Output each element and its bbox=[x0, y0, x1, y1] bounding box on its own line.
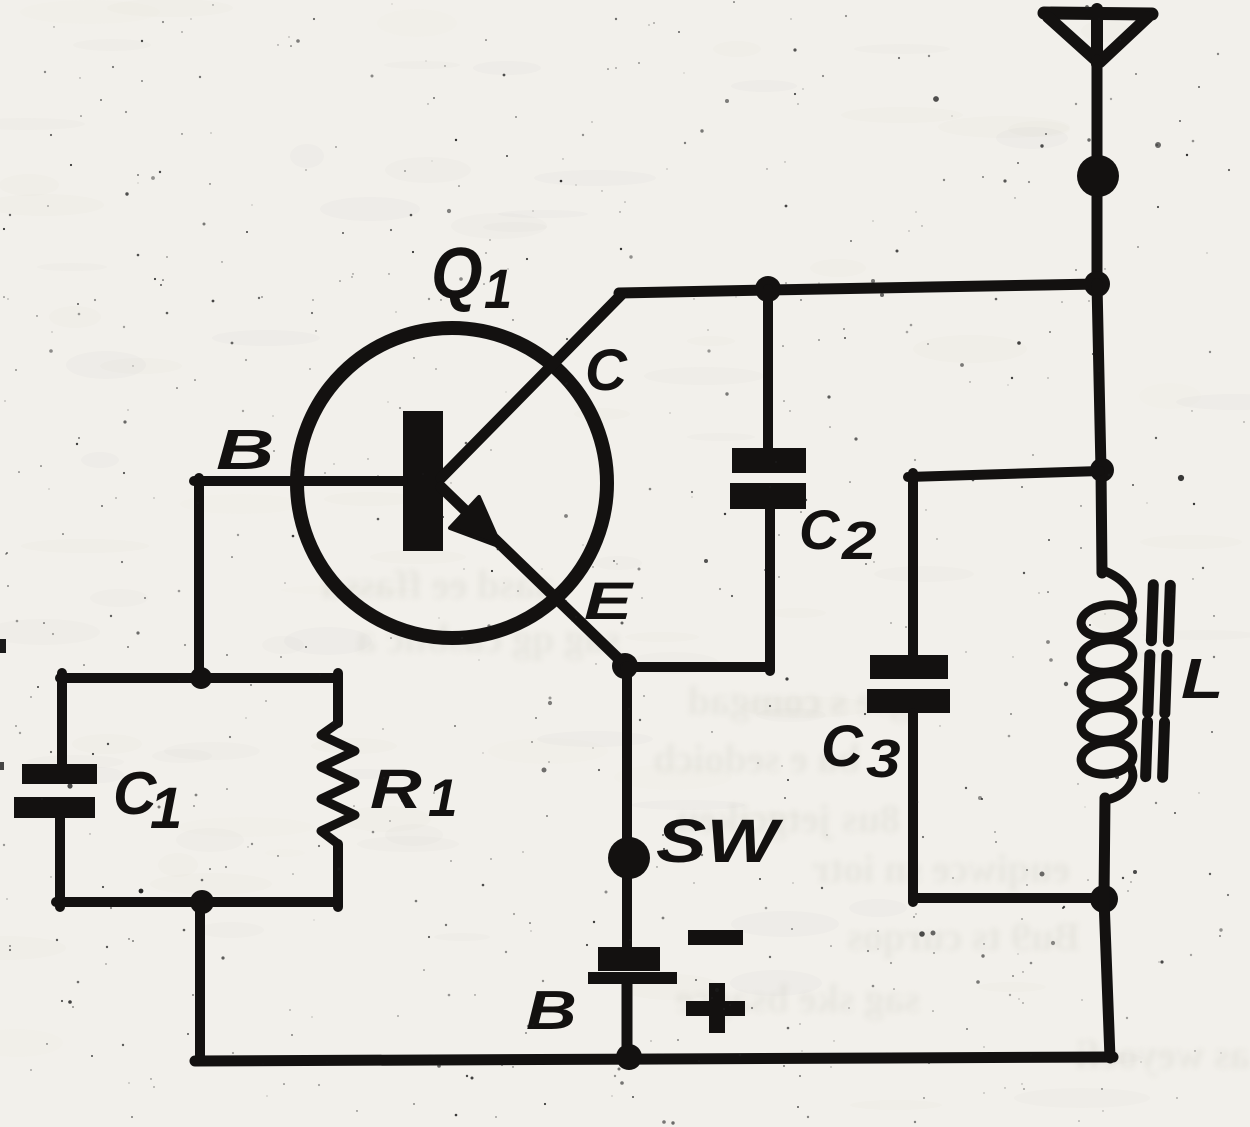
inductor L bbox=[1079, 570, 1135, 800]
node emitter junction bbox=[612, 653, 638, 679]
capacitor C3 bbox=[867, 473, 950, 902]
svg-text:1: 1 bbox=[484, 259, 512, 321]
resistor R1 bbox=[321, 673, 355, 907]
svg-text:L: L bbox=[1181, 647, 1223, 711]
wire right main vertical (lower) bbox=[1104, 798, 1110, 1058]
svg-text:Q: Q bbox=[431, 232, 483, 313]
wire C3 top bbox=[908, 471, 1100, 477]
label R1 bbox=[370, 758, 457, 828]
node L bottom junction bbox=[1090, 885, 1118, 913]
svg-text:B: B bbox=[526, 980, 577, 1041]
svg-text:C: C bbox=[821, 714, 864, 779]
node C3 top junction bbox=[1090, 458, 1114, 482]
inductor core bars bbox=[1146, 585, 1171, 778]
svg-text:3: 3 bbox=[866, 729, 901, 789]
label Q1 bbox=[431, 232, 512, 320]
label C2 bbox=[799, 498, 877, 571]
wire emitter to C2 bbox=[625, 662, 770, 672]
node C2 top junction bbox=[755, 276, 781, 302]
switch SW bbox=[608, 837, 650, 879]
svg-text:Bu9 ts curqos: Bu9 ts curqos bbox=[847, 914, 1080, 959]
wire antenna lead bbox=[1092, 60, 1103, 284]
wire emitter down to battery bbox=[622, 666, 632, 948]
wire base lead bbox=[194, 476, 403, 486]
label C1 bbox=[113, 760, 182, 841]
wire C1/R1 top rail bbox=[60, 673, 338, 683]
wire left drop to ground rail bbox=[195, 902, 205, 1061]
svg-text:E: E bbox=[584, 572, 634, 631]
wire left drop from base bbox=[194, 478, 204, 677]
transistor Q1 bbox=[297, 294, 625, 665]
antenna bbox=[1044, 9, 1152, 64]
wire bottom rail bbox=[195, 1057, 1113, 1061]
svg-text:C: C bbox=[585, 338, 628, 403]
svg-text:euqiwce sn iotr: euqiwce sn iotr bbox=[812, 846, 1070, 891]
svg-text:1: 1 bbox=[150, 776, 182, 841]
wire collector top rail bbox=[619, 284, 1097, 293]
label C3 bbox=[821, 714, 901, 789]
node top-right junction bbox=[1084, 271, 1110, 297]
node battery bottom junction bbox=[616, 1044, 642, 1070]
battery B bbox=[588, 930, 745, 1058]
capacitor C1 bbox=[14, 673, 97, 907]
node top-rail junction bbox=[190, 667, 212, 689]
wire C1/R1 bottom rail bbox=[56, 897, 338, 907]
wire C3 bottom bbox=[913, 893, 1104, 903]
svg-text:SW: SW bbox=[656, 807, 784, 875]
node bottom-rail junction bbox=[190, 890, 214, 914]
svg-text:B: B bbox=[216, 418, 274, 482]
svg-text:R: R bbox=[370, 758, 422, 821]
svg-text:C: C bbox=[799, 498, 841, 561]
node antenna tap dot bbox=[1077, 155, 1119, 197]
edge ink mark (decorative) bbox=[0, 639, 6, 653]
svg-text:1: 1 bbox=[428, 769, 457, 828]
svg-text:2: 2 bbox=[841, 511, 877, 571]
capacitor C2 bbox=[730, 289, 806, 671]
ghost show-through (decorative) bbox=[322, 562, 1250, 1077]
wire right main vertical (upper) bbox=[1097, 284, 1102, 573]
